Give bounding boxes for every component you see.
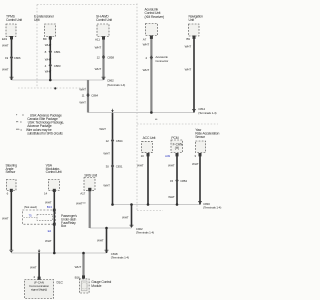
junction dot E-pret/bus1 xyxy=(49,79,52,82)
svg-text:Sensor: Sensor xyxy=(6,170,17,174)
svg-text:WHT: WHT xyxy=(168,163,175,167)
bus line 1 xyxy=(12,78,104,82)
svg-text:WHT: WHT xyxy=(97,238,104,242)
svg-text:WHT: WHT xyxy=(30,265,37,269)
svg-text:A7: A7 xyxy=(143,38,147,42)
wire steering angle sensor xyxy=(8,192,14,251)
svg-text:WHT: WHT xyxy=(185,45,192,49)
svg-text:C883: C883 xyxy=(54,64,61,68)
terminal ACC xyxy=(147,153,150,156)
svg-text:WHT: WHT xyxy=(192,162,199,166)
box ACC unit xyxy=(142,141,153,152)
svg-text:C806: C806 xyxy=(14,56,21,60)
terminal PCM xyxy=(176,153,179,156)
terminal gauge xyxy=(82,275,85,278)
box AcuraLink control unit xyxy=(146,24,158,36)
svg-text:C884: C884 xyxy=(180,179,187,183)
svg-text:WHT: WHT xyxy=(45,239,52,243)
svg-text:WHT: WHT xyxy=(45,43,52,47)
svg-text:WHT: WHT xyxy=(103,151,110,155)
wire yaw sensor xyxy=(197,155,203,205)
svg-text:A49: A49 xyxy=(165,154,170,158)
svg-text:ACC Unit: ACC Unit xyxy=(143,136,156,140)
bus line 5 xyxy=(11,251,106,255)
wire Navigation xyxy=(191,38,197,113)
box SH-AWD control unit xyxy=(97,24,109,37)
svg-text:12: 12 xyxy=(97,55,101,59)
inline connector C884 xyxy=(176,179,179,183)
svg-text:WHT: WHT xyxy=(143,43,150,47)
svg-text:30: 30 xyxy=(106,165,110,169)
wire AcuraLink xyxy=(147,36,156,113)
svg-text:WHT: WHT xyxy=(2,44,9,48)
svg-text:(H): (H) xyxy=(175,146,179,150)
svg-text:12: 12 xyxy=(106,139,110,143)
terminal TPMS xyxy=(10,36,13,39)
terminal steering xyxy=(10,189,13,192)
wire TPMS xyxy=(8,39,14,80)
box VSA modulator control unit xyxy=(48,180,59,191)
wire PCM xyxy=(174,155,180,205)
terminal E-pretensioner xyxy=(49,36,52,39)
svg-text:14: 14 xyxy=(44,192,48,196)
svg-text:Control Unit: Control Unit xyxy=(6,18,22,22)
svg-text:AcuraLink: AcuraLink xyxy=(145,7,159,11)
fuse box passenger's under-dash xyxy=(22,210,55,224)
svg-text:E2: E2 xyxy=(48,229,52,233)
svg-text:Module: Module xyxy=(91,284,101,288)
junction dot PCM/bus3 xyxy=(176,203,179,206)
svg-text:WHT: WHT xyxy=(103,183,110,187)
junction dot bus4/C818 drop xyxy=(105,227,108,230)
svg-text:Box: Box xyxy=(61,224,67,228)
svg-text:WHT: WHT xyxy=(99,127,106,131)
svg-text:WHT: WHT xyxy=(75,265,82,269)
terminal SRS xyxy=(88,188,91,191)
svg-text:PCM: PCM xyxy=(171,136,178,140)
inline connector C864 xyxy=(87,93,90,97)
fuse box inner rect xyxy=(37,214,53,220)
svg-text:B16: B16 xyxy=(75,276,80,280)
wire E-pretensioner xyxy=(47,37,53,80)
svg-text:C834: C834 xyxy=(116,139,123,143)
svg-text:(Terminals 1-4): (Terminals 1-4) xyxy=(198,111,216,115)
connector end symbol steering/bus5 xyxy=(9,250,13,253)
gauge module inner box xyxy=(82,281,88,291)
svg-text:(Terminals 1-4): (Terminals 1-4) xyxy=(136,231,154,235)
box TPMS control unit xyxy=(6,24,16,36)
bus line 4 xyxy=(90,226,132,230)
connector end symbol C902 xyxy=(130,225,134,228)
svg-text:A17: A17 xyxy=(80,191,85,195)
terminal SH-AWD xyxy=(102,36,105,39)
svg-text:WHT: WHT xyxy=(45,57,52,61)
inline connector C831 xyxy=(111,164,114,168)
junction dot VSA/bus5 xyxy=(53,252,56,255)
svg-text:(Terminals 1-4): (Terminals 1-4) xyxy=(203,206,221,210)
connector end symbol C830 xyxy=(198,202,202,205)
box SRS unit xyxy=(84,178,95,191)
dashed option-region border left xyxy=(36,5,38,89)
svg-text:signal (high)): signal (high)) xyxy=(31,288,47,292)
region marker dot xyxy=(54,87,56,89)
svg-text:(Terminals 1-4): (Terminals 1-4) xyxy=(111,256,129,260)
svg-text:A11: A11 xyxy=(95,37,100,41)
terminal yaw xyxy=(199,153,202,156)
svg-text:C814: C814 xyxy=(198,107,205,111)
connector symbol DLC drop xyxy=(38,249,41,253)
svg-text:WHT: WHT xyxy=(95,67,102,71)
wire joint C864 segment xyxy=(84,80,93,113)
box navigation unit xyxy=(189,24,200,36)
junction dot AcuraLink/bus2 xyxy=(150,111,153,114)
svg-text:C864: C864 xyxy=(91,93,98,97)
svg-text:WHT: WHT xyxy=(137,163,144,167)
svg-text:Connector: Connector xyxy=(155,59,168,63)
wire SH-AWD xyxy=(99,37,108,80)
svg-text:B9: B9 xyxy=(186,37,190,41)
svg-text:C881: C881 xyxy=(54,50,61,54)
svg-text:E19: E19 xyxy=(2,37,7,41)
dashed border ACC region top xyxy=(137,123,218,125)
inline connector C834 xyxy=(111,139,114,143)
svg-text:11: 11 xyxy=(82,93,85,97)
wire C902 drop xyxy=(128,205,134,227)
wire SRS xyxy=(85,191,94,229)
box DLC xyxy=(25,280,54,299)
svg-text:Unit: Unit xyxy=(189,18,195,22)
terminal DLC xyxy=(38,277,41,280)
svg-text:Sensor: Sensor xyxy=(195,135,206,139)
box PCM xyxy=(171,140,183,153)
connector end symbol C862 xyxy=(102,77,106,80)
wire ACC xyxy=(145,155,151,205)
svg-text:Control Unit: Control Unit xyxy=(96,18,112,22)
inline connector AcuraLink connector xyxy=(150,56,153,60)
wire gauge module drop xyxy=(79,253,88,276)
inline connector C881 xyxy=(49,50,52,54)
terminal VSA wire at fuse box bottom E2 xyxy=(53,223,56,226)
box yaw rate sensor xyxy=(196,141,206,153)
connector symbol bus2 drop xyxy=(111,109,114,113)
svg-text:WHT: WHT xyxy=(45,200,52,204)
svg-text:C831: C831 xyxy=(116,165,123,169)
svg-text:B9: B9 xyxy=(43,37,47,41)
svg-text:Control Unit: Control Unit xyxy=(145,11,161,15)
dashed option-region border right xyxy=(136,4,138,211)
junction dot bus3 left xyxy=(111,203,114,206)
connector end symbol C818 xyxy=(105,250,109,253)
svg-text:DLC: DLC xyxy=(57,280,64,284)
terminal VSA xyxy=(53,189,56,192)
svg-text:B13: B13 xyxy=(47,205,52,209)
svg-text:WHT: WHT xyxy=(79,88,86,92)
dashed option-region border bottom-left xyxy=(18,87,86,89)
svg-text:SRS Unit: SRS Unit xyxy=(84,173,97,177)
svg-text:WHT: WHT xyxy=(2,216,9,220)
svg-text:WHT: WHT xyxy=(79,101,86,105)
wire VSA xyxy=(51,191,57,253)
svg-text:Unit: Unit xyxy=(34,18,40,22)
svg-text:WHT: WHT xyxy=(143,68,150,72)
junction dot ACC/bus3 xyxy=(147,203,150,206)
box steering angle sensor xyxy=(6,180,16,191)
terminal navigation xyxy=(193,36,196,39)
svg-text:substituted for SRS circuits: substituted for SRS circuits xyxy=(27,131,63,135)
junction dot gauge/bus5 xyxy=(82,252,85,255)
fuse box not-used path xyxy=(24,217,38,219)
svg-text:C818: C818 xyxy=(111,252,118,256)
svg-text:(Terminals 1-4): (Terminals 1-4) xyxy=(107,83,125,87)
svg-text:WHT: WHT xyxy=(2,67,9,71)
svg-text:75: 75 xyxy=(29,214,33,218)
svg-text:15: 15 xyxy=(170,179,174,183)
svg-text:C862: C862 xyxy=(107,79,114,83)
inline connector C806 xyxy=(10,56,13,60)
bus line 2 xyxy=(88,111,194,115)
svg-text:19: 19 xyxy=(5,56,9,60)
svg-text:(Not used): (Not used) xyxy=(24,205,37,209)
svg-text:C858: C858 xyxy=(107,55,114,59)
svg-text:WHT: WHT xyxy=(168,195,175,199)
bus line 3 xyxy=(113,203,201,207)
svg-text:WHT: WHT xyxy=(185,67,192,71)
dashed option-region border top xyxy=(37,3,137,5)
inline connector C858 xyxy=(102,55,105,59)
svg-text:WHT***: WHT*** xyxy=(76,201,87,205)
svg-text:WHT: WHT xyxy=(122,215,129,219)
svg-text:WHT: WHT xyxy=(45,70,52,74)
box gauge control module xyxy=(79,279,89,293)
inline connector C883 xyxy=(49,63,52,67)
terminal AcuraLink xyxy=(150,36,153,39)
dashed border ACC region bottom xyxy=(137,209,163,211)
wire C834/C831 drop xyxy=(109,113,115,205)
terminal VSA wire at fuse box top B13 xyxy=(53,209,56,212)
svg-text:10: 10 xyxy=(141,154,145,158)
connector end symbol C814 xyxy=(192,110,196,113)
svg-text:Control Unit: Control Unit xyxy=(46,170,62,174)
wire C818 drop xyxy=(103,228,109,253)
connector end symbol TPMS/bus1 xyxy=(10,77,14,80)
svg-text:WHT: WHT xyxy=(95,46,102,50)
svg-text:(XM Receiver): (XM Receiver) xyxy=(145,15,164,19)
junction dot C902 top xyxy=(130,203,133,206)
wire DLC drop xyxy=(36,253,42,278)
box E-pretensioner unit xyxy=(45,24,56,37)
